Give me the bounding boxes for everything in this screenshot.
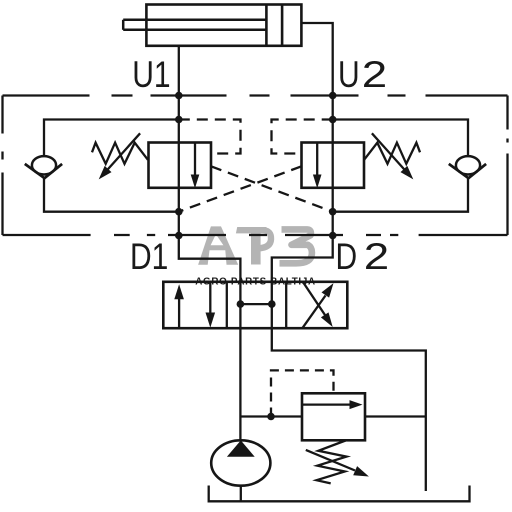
svg-text:2: 2 — [364, 237, 389, 278]
svg-text:U1: U1 — [132, 55, 170, 95]
svg-text:U: U — [338, 55, 360, 95]
svg-text:D1: D1 — [130, 237, 168, 277]
svg-text:D: D — [336, 237, 358, 277]
svg-text:2: 2 — [362, 55, 387, 96]
